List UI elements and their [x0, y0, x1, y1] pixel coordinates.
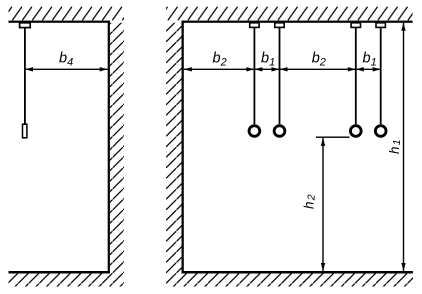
dimension h2 line [322, 138, 324, 271]
rope end fitting [23, 124, 27, 138]
wall hatch (left panel) [110, 23, 124, 273]
ceiling line (left panel) [9, 21, 110, 23]
rope 4 [380, 27, 382, 124]
floor hatch (right panel) [166, 273, 413, 286]
ceiling hatch (left panel) [9, 7, 125, 21]
rope 1 [254, 27, 256, 124]
bracket 2 [275, 23, 284, 28]
bracket 3 [351, 23, 360, 28]
ring 4 [375, 126, 386, 137]
floor hatch (left panel) [9, 273, 125, 286]
bracket 4 [376, 23, 385, 28]
rope 3 [355, 27, 357, 124]
wall hatch (right panel) [166, 23, 182, 273]
ceiling hatch (right panel) [166, 7, 413, 21]
wall line (right panel left wall) [182, 21, 184, 274]
rope 2 [279, 27, 281, 124]
bracket 1 [250, 23, 259, 28]
floor line (right panel) [182, 271, 413, 274]
floor line (left panel) [9, 271, 110, 274]
h2 reference line at ring bottom level [316, 137, 350, 138]
ring 3 [350, 126, 361, 137]
rope bracket (left panel) [20, 23, 31, 28]
ceiling line (right panel) [182, 21, 413, 23]
wall line (left panel right wall) [108, 21, 110, 274]
dimension b4 line [25, 68, 108, 70]
dimension h1 line [403, 23, 405, 271]
ring 1 [249, 126, 260, 137]
dimension chain b2 b1 b2 b1 [184, 68, 381, 70]
rope (left panel) [24, 28, 26, 125]
ring 2 [274, 126, 285, 137]
